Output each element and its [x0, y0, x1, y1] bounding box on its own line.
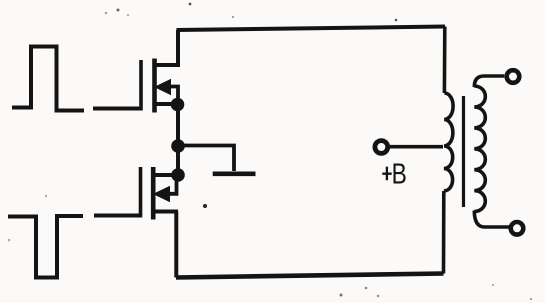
svg-text:B: B	[392, 159, 407, 190]
